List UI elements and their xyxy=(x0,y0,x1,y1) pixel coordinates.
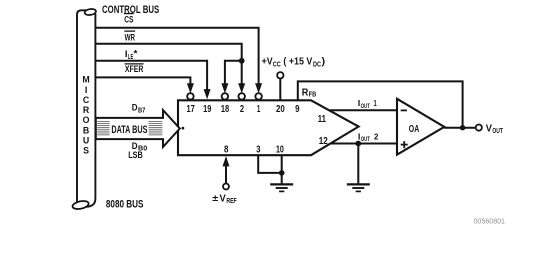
svg-text:B7: B7 xyxy=(138,107,145,114)
svg-text:OUT: OUT xyxy=(361,136,370,143)
svg-text:OA: OA xyxy=(409,124,419,135)
svg-text:2: 2 xyxy=(240,104,245,115)
svg-text:O: O xyxy=(83,115,90,125)
svg-text:DATA BUS: DATA BUS xyxy=(111,124,147,136)
svg-text:XFER: XFER xyxy=(125,64,144,75)
svg-text:1: 1 xyxy=(374,98,377,108)
svg-text:1: 1 xyxy=(257,104,261,115)
svg-text:S: S xyxy=(83,146,89,156)
svg-text:9: 9 xyxy=(295,104,300,115)
svg-text:17: 17 xyxy=(186,104,195,115)
svg-text:8080 BUS: 8080 BUS xyxy=(106,199,144,211)
svg-text:B: B xyxy=(83,125,89,135)
svg-text:FB: FB xyxy=(309,90,317,99)
svg-text:±: ± xyxy=(212,193,218,204)
svg-text:*: * xyxy=(134,49,138,60)
svg-text:U: U xyxy=(83,136,89,146)
svg-text:): ) xyxy=(322,57,326,68)
svg-text:12: 12 xyxy=(319,136,328,147)
svg-text:00560801: 00560801 xyxy=(474,217,505,226)
svg-text:LSB: LSB xyxy=(128,150,143,161)
svg-text:REF: REF xyxy=(226,196,237,205)
svg-text:DC: DC xyxy=(313,59,321,68)
svg-text:2: 2 xyxy=(374,131,379,141)
svg-text:M: M xyxy=(82,75,89,85)
svg-text:CS: CS xyxy=(124,15,134,26)
svg-text:R: R xyxy=(302,87,309,98)
svg-text:18: 18 xyxy=(221,104,230,115)
svg-text:3: 3 xyxy=(256,144,261,155)
svg-text:C: C xyxy=(83,95,90,105)
svg-text:+V: +V xyxy=(262,57,273,68)
svg-text:( +15 V: ( +15 V xyxy=(283,57,312,68)
svg-text:I: I xyxy=(85,85,87,95)
svg-text:OUT: OUT xyxy=(492,126,503,135)
svg-text:20: 20 xyxy=(276,104,285,115)
svg-text:OUT: OUT xyxy=(361,103,370,110)
svg-text:V: V xyxy=(220,194,227,205)
svg-text:8: 8 xyxy=(224,144,229,155)
svg-text:R: R xyxy=(83,105,90,115)
svg-text:CC: CC xyxy=(273,59,281,68)
svg-text:WR: WR xyxy=(125,32,135,43)
svg-text:V: V xyxy=(486,123,493,134)
svg-text:11: 11 xyxy=(318,114,327,125)
svg-text:10: 10 xyxy=(276,144,284,155)
svg-text:19: 19 xyxy=(203,104,212,115)
